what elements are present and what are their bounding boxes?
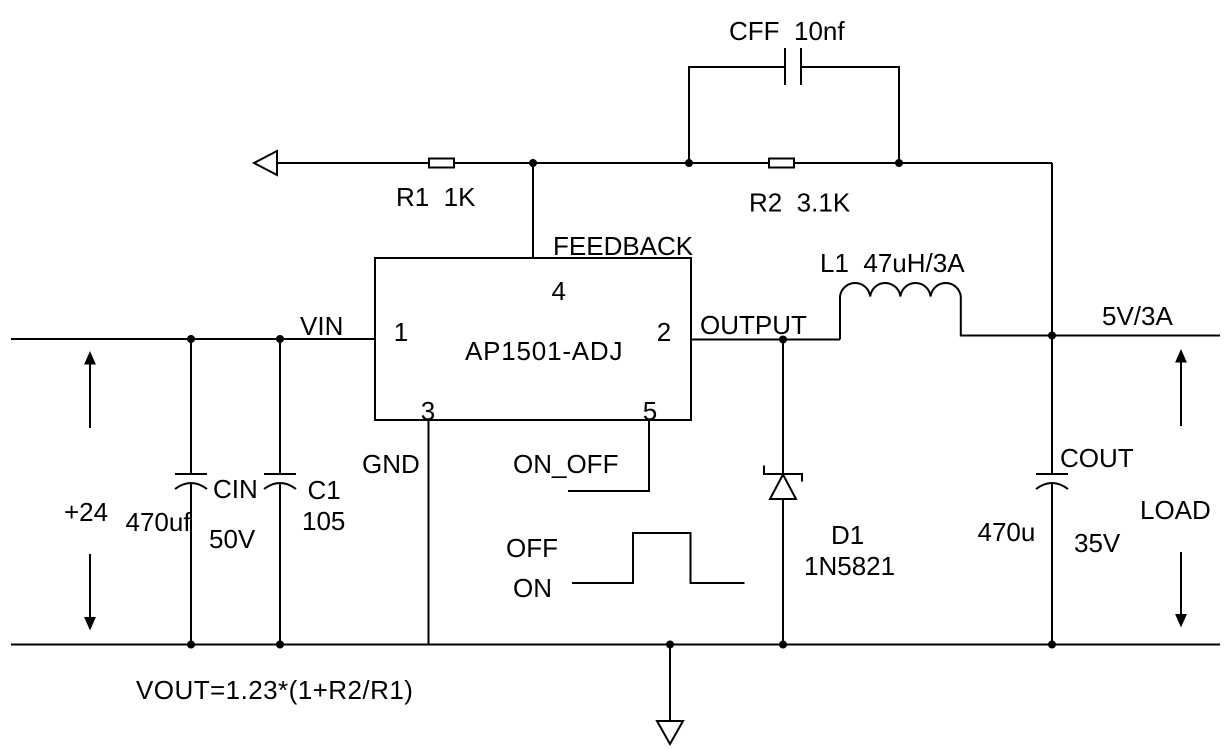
svg-text:3: 3 [421, 396, 435, 426]
svg-text:LOAD: LOAD [1140, 495, 1211, 525]
svg-text:VOUT=1.23*(1+R2/R1): VOUT=1.23*(1+R2/R1) [136, 675, 413, 705]
svg-text:COUT: COUT [1060, 443, 1134, 473]
svg-text:35V: 35V [1074, 528, 1121, 558]
svg-text:OUTPUT: OUTPUT [700, 310, 807, 340]
svg-text:C1: C1 [308, 475, 341, 505]
svg-text:ON: ON [513, 573, 552, 603]
svg-text:105: 105 [302, 506, 345, 536]
svg-text:5V/3A: 5V/3A [1102, 301, 1173, 331]
svg-text:OFF: OFF [506, 533, 558, 563]
svg-text:1: 1 [394, 317, 408, 347]
svg-text:ON_OFF: ON_OFF [513, 449, 618, 479]
svg-text:CIN: CIN [213, 474, 258, 504]
svg-text:4: 4 [551, 276, 565, 306]
svg-text:CFF 10nf: CFF 10nf [729, 16, 845, 46]
svg-text:R1 1K: R1 1K [396, 182, 476, 212]
svg-text:1N5821: 1N5821 [804, 551, 895, 581]
svg-text:VIN: VIN [300, 311, 343, 341]
svg-text:470u: 470u [978, 517, 1036, 547]
svg-text:R2 3.1K: R2 3.1K [749, 188, 851, 218]
svg-text:D1: D1 [831, 520, 864, 550]
svg-text:2: 2 [657, 317, 671, 347]
svg-text:FEEDBACK: FEEDBACK [553, 231, 694, 261]
svg-text:+24: +24 [64, 497, 108, 527]
svg-text:5: 5 [643, 396, 657, 426]
svg-text:50V: 50V [209, 524, 256, 554]
svg-text:L1 47uH/3A: L1 47uH/3A [820, 248, 965, 278]
svg-text:AP1501-ADJ: AP1501-ADJ [465, 336, 623, 366]
svg-text:470uf: 470uf [126, 507, 192, 537]
svg-text:GND: GND [362, 449, 420, 479]
